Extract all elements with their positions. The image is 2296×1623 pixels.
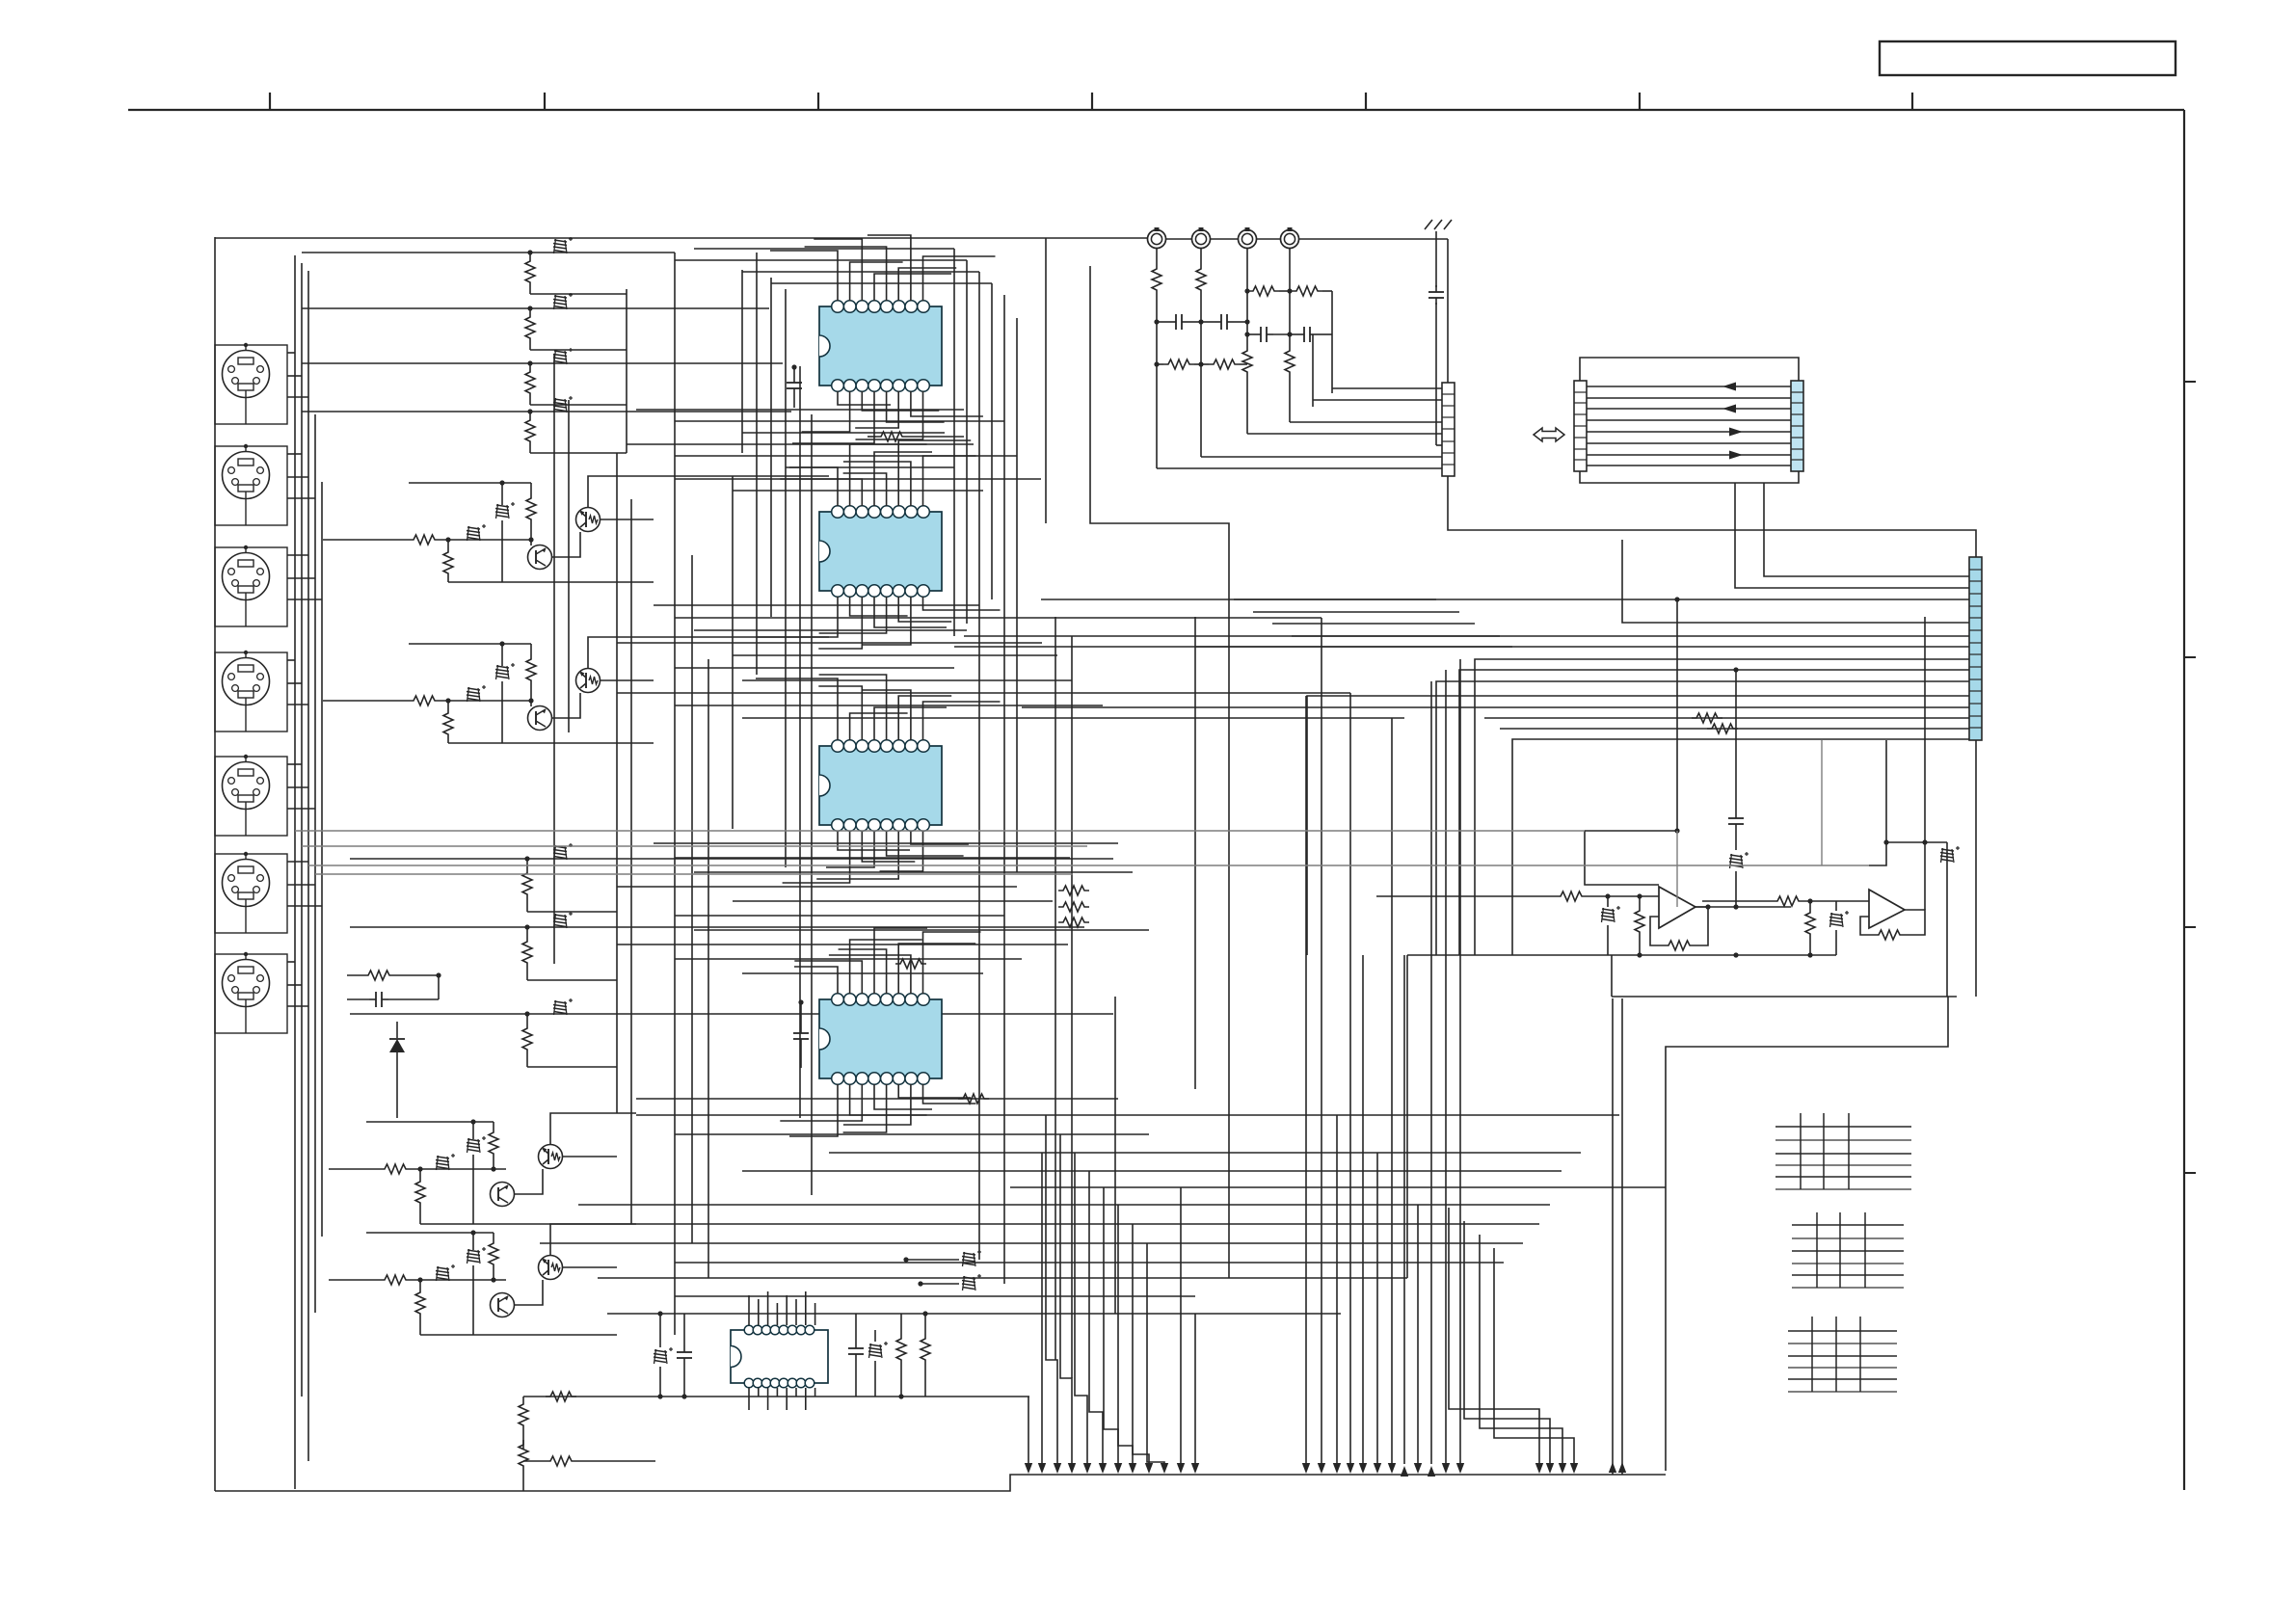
wire stairL2 <box>1060 1134 1072 1464</box>
wire bus b1 <box>636 409 964 411</box>
wire trunk v2 <box>301 263 303 1397</box>
wire stairL3 <box>1075 1153 1087 1464</box>
wire QA v521 <box>499 480 504 582</box>
wire R13 legs <box>529 363 531 405</box>
wire QC base in <box>329 1168 380 1170</box>
wire stair 5 <box>1195 646 1512 648</box>
wire CN3 in7 <box>1475 659 1969 955</box>
border top rule <box>128 109 2184 111</box>
wire CN3 in3 <box>1041 599 1969 600</box>
wire bus f3 <box>308 865 1869 866</box>
wire CN3 in4 <box>1622 540 1969 623</box>
wire J1 stub a <box>287 352 295 354</box>
wire U5 rail top <box>607 1313 1341 1315</box>
wire ribbon 4 <box>1587 419 1791 421</box>
electrolytic C17 <box>553 998 573 1015</box>
resistor R54 <box>546 1392 576 1401</box>
wire col M5 <box>1406 955 1408 1278</box>
resistor Rj3 <box>1154 359 1203 369</box>
wire cn2 top col <box>1447 239 1449 383</box>
wire drop x1067 <box>1028 1397 1029 1464</box>
wire U5 pin9 down <box>814 1388 816 1397</box>
wire jackcol2 <box>1200 322 1202 457</box>
wire U5 pin14 down <box>767 1388 769 1410</box>
arrow down x1081 <box>1038 1463 1046 1474</box>
capacitor Cj4 <box>1290 327 1332 342</box>
wire top boundary <box>215 237 1147 239</box>
capacitor C-U1 <box>787 364 802 408</box>
wire U2 pin5 up <box>843 473 887 506</box>
arrow down x1597 <box>1535 1463 1543 1474</box>
wire corner x1728 <box>1665 1187 1667 1471</box>
arrow down x1500 <box>1442 1463 1450 1474</box>
wire bus d6 <box>675 915 1004 917</box>
transistor QD-Q1 <box>491 1293 515 1317</box>
arrow down x1515 <box>1456 1463 1464 1474</box>
wire CN2 feed 6 <box>1201 456 1442 458</box>
connector J2 (DIN) <box>215 444 287 525</box>
electrolytic QD-C1 <box>436 1264 455 1281</box>
wire CN2 feed 3 <box>1290 421 1442 423</box>
wire U5 rail bottom <box>523 1396 1029 1397</box>
wire col R1 <box>953 249 955 636</box>
connector J3 (DIN) <box>215 545 287 626</box>
wire U4 pin11 down <box>898 1084 971 1098</box>
electrolytic C16 <box>553 912 573 928</box>
border tick t6 <box>1639 93 1641 110</box>
border tick r4 <box>2184 1172 2196 1174</box>
border tick t2 <box>544 93 546 110</box>
wire QA r2 legs <box>445 537 450 582</box>
wire cascade v4 <box>630 499 632 1224</box>
wire QA q2 out <box>600 519 654 520</box>
wire U2 pin7 up <box>843 462 911 506</box>
wire drop x1240 <box>1194 1314 1196 1464</box>
resistor QA-R2 <box>443 547 453 578</box>
wire U2 pin2 up <box>850 444 927 506</box>
wire ribbon 8 <box>1587 465 1791 466</box>
wire bus d2 <box>675 857 1070 859</box>
arrow up x1683 <box>1618 1462 1626 1473</box>
wire bus e9 <box>540 1242 1523 1244</box>
wire ribbon top link <box>1580 358 1799 381</box>
wire bus b2 <box>675 420 1004 422</box>
resistor R55 <box>523 1456 655 1466</box>
wire stairL8 <box>1147 1243 1164 1464</box>
wire CN3 in8 <box>1459 670 1969 955</box>
resistor R51 <box>921 1311 930 1397</box>
wire U5 pin11 down <box>795 1388 797 1397</box>
wire U1 pin12 down <box>887 391 945 422</box>
wire U3 pin10 down <box>911 831 969 844</box>
resistor QC-R2 <box>415 1177 425 1208</box>
connector J4 (DIN) <box>215 651 287 732</box>
wire U3 pin11 down <box>816 831 898 879</box>
wire A2 fb <box>1860 910 1925 940</box>
wire QB q2 out <box>600 679 654 681</box>
arrow down x1633 <box>1570 1463 1578 1474</box>
wire bus e7 <box>578 1204 1550 1206</box>
wire col M1 <box>1045 238 1047 523</box>
wire bus e11 <box>598 1277 1407 1279</box>
wire J6 stub b <box>287 884 315 886</box>
wire QD base mid <box>411 1279 506 1281</box>
resistor Rm4 <box>868 432 964 441</box>
wire bus a1 <box>694 248 954 250</box>
wire bus c9 <box>675 705 1103 706</box>
wire stairR4 <box>1494 1248 1574 1464</box>
wire QD v512 <box>491 1233 495 1283</box>
wire A2 +in link <box>1869 740 1889 865</box>
wire A1 fb <box>1650 907 1708 950</box>
wire ribbon arrow 3 <box>1729 428 1743 437</box>
table G3 <box>1788 1317 1897 1392</box>
border tick t1 <box>269 93 271 110</box>
node row 5 <box>524 856 529 861</box>
wire jackcol3 link <box>1246 291 1248 334</box>
arrow down x1112 <box>1068 1463 1076 1474</box>
wire left boundary <box>214 237 216 1491</box>
wire U4 pin1 up <box>794 967 838 994</box>
wire U1 pin8 up <box>923 256 996 301</box>
node row 6 <box>524 924 529 929</box>
wire QA v551 <box>528 483 533 545</box>
connector J6 (DIN) <box>215 852 287 933</box>
op-amp A1 <box>1659 887 1695 928</box>
wire J3 stub a <box>287 554 308 556</box>
wire drop x1457 <box>1403 955 1405 1464</box>
wire CN3 in14 <box>1512 739 1969 955</box>
transistor QA-Q1 <box>528 545 552 570</box>
wire ribbon arrow 4 <box>1729 451 1743 460</box>
wire bus d9 <box>675 958 1022 960</box>
wire J2 stub a <box>287 453 302 455</box>
resistor Rj1 <box>1152 249 1161 322</box>
electrolytic C50 <box>654 1311 673 1398</box>
resistor Rj6 <box>1287 286 1332 296</box>
wire bus e1 <box>636 1098 1118 1100</box>
resistor Rj4 <box>1201 359 1247 369</box>
wire bus b6 <box>786 466 954 468</box>
wire U2 pin3 up <box>780 479 862 506</box>
wire R17 legs <box>526 1014 528 1067</box>
wire R11 legs <box>529 253 531 294</box>
wire QC base mid <box>411 1168 506 1170</box>
op-amp A2 <box>1869 890 1905 928</box>
wire U1 pin15 down <box>802 391 850 432</box>
wire input row 6 <box>350 926 1084 928</box>
wire QD bottom rail <box>420 1334 617 1336</box>
wire row 5 out <box>527 911 617 913</box>
wire J6 stub c <box>287 905 322 907</box>
IC U4 <box>819 994 942 1085</box>
wire bus d5 <box>733 900 1053 902</box>
title block <box>1880 41 2176 75</box>
wire CN3 in12 <box>1484 713 1969 723</box>
wire U1 pin7 up <box>868 235 911 301</box>
wire CN2 feed 1 <box>1332 387 1442 389</box>
wire stairL7 <box>1133 1224 1149 1464</box>
arrow down x1225 <box>1177 1463 1185 1474</box>
wire CN2 feed 5 <box>1436 444 1442 446</box>
wire row 3 out <box>530 404 627 406</box>
wire col L3 <box>770 278 772 617</box>
wire QA q2 top <box>588 476 829 508</box>
wire bus a2 <box>675 259 967 261</box>
wire bus f4 <box>315 873 1073 875</box>
wire ribbon bottom link <box>1580 471 1799 483</box>
wire CN3 in13 <box>1500 724 1969 733</box>
wire J4 stub b <box>287 682 302 684</box>
wire col L1 <box>741 270 743 453</box>
wire U5 pin4 up <box>776 1303 778 1325</box>
wire U4 pin6 up <box>898 944 975 994</box>
electrolytic Co1 <box>1601 893 1620 955</box>
connector CN2 <box>1442 383 1455 476</box>
wire trunk v3 <box>307 271 309 1461</box>
capacitor C51 <box>677 1314 692 1399</box>
resistor QB-R1 <box>409 696 440 705</box>
wire bus d1 <box>654 842 1118 844</box>
wire QA q1-q2 <box>552 532 580 557</box>
capacitor Cc1 <box>1728 667 1744 850</box>
wire U3 pin9 down <box>880 831 923 871</box>
wire bus e3 <box>675 1133 1149 1135</box>
wire U1 pin4 up <box>874 274 951 301</box>
resistor R50 <box>896 1314 906 1399</box>
wire CN3 in5 <box>964 635 1969 637</box>
wire C70 link <box>438 975 440 999</box>
wire QC bottom rail <box>420 1223 617 1225</box>
wire U2 pin9 down <box>923 597 1001 610</box>
wire QD r2 legs <box>417 1277 422 1335</box>
electrolytic C55 <box>918 1274 981 1290</box>
resistor Ro3 <box>1635 896 1644 955</box>
wire U3 pin14 down <box>862 831 915 862</box>
wire bus c1 <box>654 604 979 606</box>
IC U5 <box>731 1325 828 1388</box>
wire U5 pin15 down <box>758 1388 760 1397</box>
resistor Rm6 <box>895 959 926 969</box>
wire col L5 <box>799 366 801 1118</box>
wire input row 2 <box>302 307 769 309</box>
wire U4 pin2 up <box>850 940 922 994</box>
arrow down x1471 <box>1414 1463 1422 1474</box>
wire row 7 out <box>527 1066 617 1068</box>
wire U5 pin2 up <box>758 1299 760 1325</box>
wire QD q2 top <box>550 1224 636 1256</box>
electrolytic QB-C1 <box>467 685 486 702</box>
wire U5 pin5 up <box>786 1295 788 1325</box>
resistor Ro1 in <box>1376 891 1659 901</box>
wire jackcol4 link <box>1289 291 1291 334</box>
electrolytic C14 <box>553 396 573 412</box>
wire stair 2 <box>1253 611 1459 613</box>
IC U2 <box>819 506 942 598</box>
node row 1 <box>527 250 532 254</box>
wire QA bottom rail <box>448 581 654 583</box>
wire QC v491 <box>470 1119 475 1224</box>
wire L-path right <box>1666 997 1948 1187</box>
wire QB base in <box>323 700 409 702</box>
wire stairL6 <box>1118 1205 1133 1464</box>
resistor QC-R3 <box>489 1128 498 1158</box>
wire bus e10 <box>675 1262 1504 1264</box>
wire QB v551 <box>528 644 533 706</box>
arrow down x1621 <box>1559 1463 1566 1474</box>
wire U3 pin2 up <box>850 713 908 740</box>
wire J7 stub a <box>287 961 295 963</box>
wire bus f2 <box>302 845 1087 847</box>
wire A1 out <box>1695 904 1791 909</box>
arrow down x1240 <box>1191 1463 1199 1474</box>
wire A1 +in feed <box>1585 831 1659 885</box>
border tick t5 <box>1365 93 1367 110</box>
wire J2 stub c <box>287 497 315 499</box>
wire bus c6 <box>675 667 954 669</box>
wire U3 pin13 down <box>826 831 874 867</box>
wire U5 pin12 down <box>786 1388 788 1410</box>
wire U4 pin15 down <box>850 1084 927 1115</box>
arrow down x1371 <box>1318 1463 1325 1474</box>
wire ribbon arrow 1 <box>1722 383 1736 391</box>
wire QD base in <box>329 1279 380 1281</box>
connector CN4 left <box>1574 381 1587 471</box>
wire R12 legs <box>529 308 531 350</box>
resistor QD-R2 <box>415 1288 425 1318</box>
wire U2 pin15 down <box>850 597 908 616</box>
electrolytic C53 <box>868 1330 888 1397</box>
wire trunk v5 <box>321 482 323 1237</box>
wire CN3 in9 <box>1436 681 1969 955</box>
wire stairL4 <box>1089 1171 1103 1464</box>
wire col M4 <box>1114 997 1116 1314</box>
wire QC v512 <box>491 1122 495 1172</box>
wire drop x1387 <box>1336 1115 1338 1464</box>
electrolytic QB-C2 <box>495 663 515 679</box>
wire stair 3 <box>1272 623 1475 625</box>
resistor QD-R3 <box>489 1238 498 1269</box>
resistor Rm1 <box>1058 886 1089 895</box>
IC U1 <box>819 301 942 392</box>
wire trunk v1 <box>294 255 296 1489</box>
wire QC r2 legs <box>417 1166 422 1224</box>
resistor Ro2 in <box>1702 896 1869 906</box>
wire J7 stub b <box>287 984 302 986</box>
wire U5 pin13 down <box>776 1388 778 1397</box>
wire cascade v2 <box>568 400 570 732</box>
wire opamp bus <box>1407 952 1836 957</box>
wire U4 pin4 up <box>874 928 927 994</box>
wire CN3 in10 <box>1307 696 1969 955</box>
wire U4 pin5 up <box>839 949 887 994</box>
wire A1 out col <box>1676 831 1678 907</box>
wire CN3 in2 <box>1735 483 1969 588</box>
wire CN3 below <box>1975 740 1977 997</box>
ground GND1 <box>1425 220 1452 239</box>
electrolytic C15 <box>553 843 573 860</box>
wire col R5 <box>1003 295 1005 1284</box>
wire QD v491 <box>470 1230 475 1335</box>
resistor QD-R1 <box>380 1275 411 1285</box>
wire drop x1500 <box>1445 670 1447 1464</box>
wire QC q2 out <box>562 1156 617 1157</box>
wire QB bottom rail <box>448 742 654 744</box>
wire trunk v4 <box>314 414 316 1313</box>
wire U4 pin9 down <box>923 1084 976 1104</box>
resistor R52 <box>519 1397 528 1449</box>
wire U4 pin14 down <box>780 1084 862 1121</box>
connector P1 (RCA jack) <box>1148 227 1166 249</box>
resistor QA-R1 <box>409 535 440 545</box>
wire QB q2 top <box>588 637 829 669</box>
wire CN2 feed 2 <box>1313 399 1442 401</box>
wire drop x1401 <box>1349 693 1351 1464</box>
wire R15 legs <box>526 859 528 912</box>
border tick r2 <box>2184 656 2196 658</box>
resistor R14 <box>525 415 535 446</box>
wire U1 pin6 up <box>898 268 956 301</box>
border tick r3 <box>2184 926 2196 928</box>
wire QC top rail <box>366 1121 494 1123</box>
wire stairR2 <box>1464 1221 1550 1464</box>
resistor QA-R3 <box>526 493 536 524</box>
wire stairL5 <box>1104 1187 1118 1464</box>
arrow down x1144 <box>1099 1463 1107 1474</box>
wire J5 stub c <box>287 808 315 810</box>
wire bus a3 <box>742 271 979 273</box>
wire row bus v700 <box>674 253 676 525</box>
wire bus d4 <box>617 886 1017 888</box>
arrow up x1457 <box>1401 1466 1408 1477</box>
wire CN2 feed 7 <box>1157 467 1442 469</box>
wire QA top rail <box>409 482 531 484</box>
wire QB base mid <box>440 700 531 702</box>
wire U3 pin12 down <box>887 831 964 856</box>
border tick t7 <box>1911 93 1913 110</box>
arrow down x1429 <box>1374 1463 1381 1474</box>
wire drop x1471 <box>1417 1205 1419 1464</box>
wire U2 pin14 down <box>818 597 862 649</box>
wire row 1 out <box>530 293 627 295</box>
wire CN3 in1 <box>1764 483 1969 576</box>
arrow up x1673 <box>1609 1462 1616 1473</box>
wire ribbon 5 <box>1587 431 1791 433</box>
wire jackcol5 <box>1331 291 1333 393</box>
connector CN5 right <box>1791 381 1803 471</box>
wire QD q2 out <box>562 1266 617 1268</box>
wire bus e2 <box>636 1114 1619 1116</box>
wire bus e8 <box>617 1223 1539 1225</box>
wire row 6 out <box>527 979 617 981</box>
wire ribbon 3 <box>1587 408 1791 410</box>
arrow down x1608 <box>1546 1463 1554 1474</box>
wire QB q1-q2 <box>552 693 580 718</box>
capacitor C-U4 <box>793 999 809 1068</box>
wire bus d8 <box>617 944 1068 945</box>
wire bus b7 <box>675 478 1041 480</box>
symbol bidir arrow <box>1534 428 1564 441</box>
wire QC q1-q2 <box>515 1169 543 1194</box>
wire U5 pin3 up <box>767 1291 769 1325</box>
wire col M2 <box>1090 266 1229 1278</box>
transistor QD-Q2 <box>539 1256 563 1280</box>
wire U2 pin13 down <box>874 597 947 627</box>
wire col L4 <box>785 289 787 867</box>
wire U5 pin10 down <box>805 1388 807 1410</box>
wire J2 stub b <box>287 476 308 478</box>
wire drop x1515 <box>1459 659 1461 1464</box>
